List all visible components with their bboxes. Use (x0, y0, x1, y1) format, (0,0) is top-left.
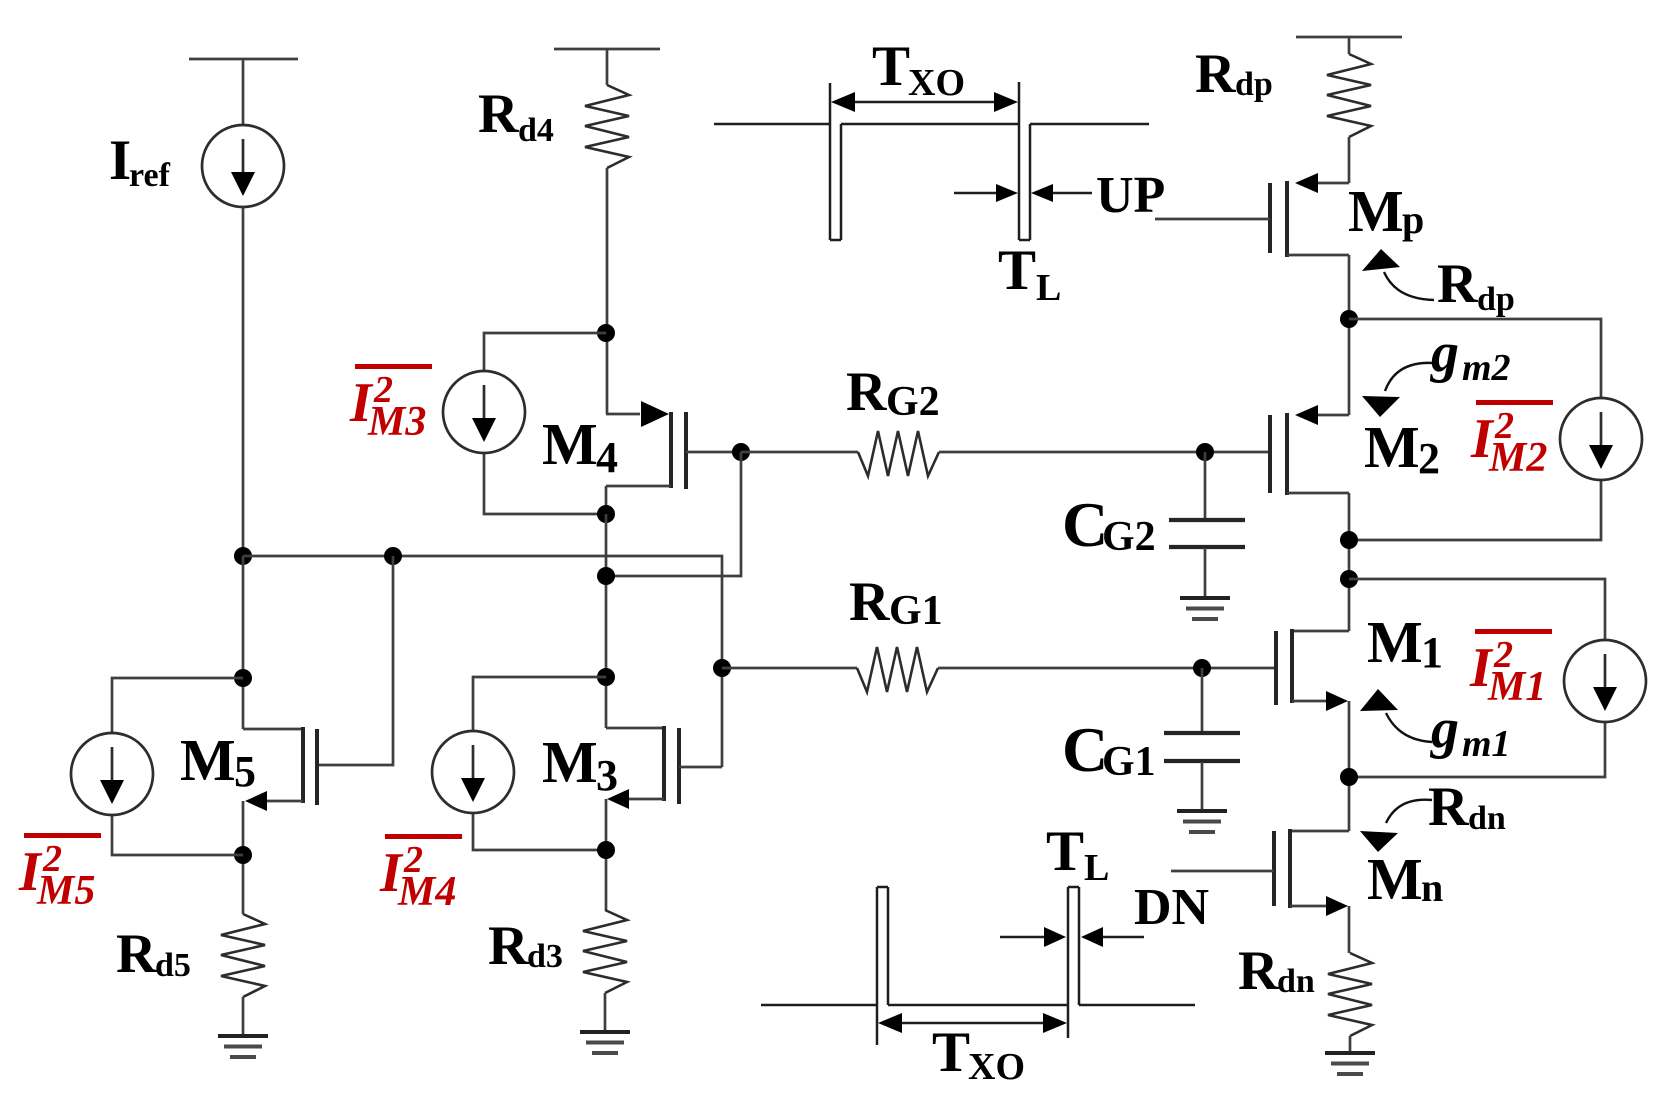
node I (M3 drain / IM4 loop top) (597, 668, 615, 686)
label IM1 noise (red) (1475, 629, 1552, 634)
wire Rd4 to M4 drain (606, 168, 609, 414)
wire M3 source to Rd3 (605, 799, 608, 910)
UP waveform baseline middle (841, 123, 1018, 126)
svg-text:1: 1 (1421, 628, 1443, 677)
svg-text:d3: d3 (527, 938, 563, 975)
svg-text:m1: m1 (1462, 723, 1511, 765)
svg-text:R: R (846, 361, 887, 423)
resistor Rd5 (221, 914, 265, 997)
svg-text:T: T (872, 35, 910, 98)
ground (Rd3) (580, 1030, 630, 1034)
power rail VDD (middle) (554, 48, 660, 51)
dimension TXO (bottom) arrow (884, 1022, 1062, 1024)
ground (CG2) (1180, 596, 1230, 600)
svg-text:M1: M1 (1487, 664, 1546, 710)
noise source IM4 loop wires (473, 677, 606, 731)
DN waveform baseline right (1079, 1004, 1195, 1007)
wire RG2 right segment (939, 451, 1270, 454)
svg-text:3: 3 (596, 751, 618, 800)
svg-text:R: R (849, 571, 890, 633)
svg-text:R: R (478, 83, 519, 145)
wire RG1 left segment (722, 667, 857, 670)
wire RG1 right segment (938, 667, 1276, 670)
svg-text:5: 5 (234, 747, 256, 796)
UP waveform pulse 1 (829, 83, 832, 240)
svg-text:R: R (1437, 253, 1478, 315)
wire Rd3 to ground (604, 993, 607, 1030)
noise current source IM2 (1560, 398, 1642, 480)
node L (RG2 / CG2) (1196, 443, 1214, 461)
svg-text:M: M (542, 411, 598, 477)
capacitor CG2 (1204, 452, 1207, 519)
svg-text:p: p (1402, 197, 1424, 242)
node Q (M1 source / IM1 loop bottom) (1340, 768, 1358, 786)
DN waveform pulse 1 (876, 887, 879, 1045)
svg-text:L: L (1036, 267, 1061, 309)
svg-text:I: I (109, 129, 131, 192)
noise source IM2 loop wires (1349, 319, 1601, 398)
svg-text:G1: G1 (889, 588, 943, 634)
node A (Iref / M5 drain / mirror rail) (234, 547, 252, 565)
svg-text:g: g (1429, 322, 1459, 384)
label IM5 noise (red) (24, 833, 101, 838)
svg-text:M: M (1364, 414, 1420, 480)
UP waveform baseline left (714, 123, 829, 126)
noise current source IM4 (432, 731, 514, 813)
svg-text:R: R (1195, 43, 1236, 105)
resistor Rdp (1327, 54, 1371, 137)
svg-text:M: M (1348, 178, 1404, 244)
node E (M4 drain / IM3 loop top) (597, 324, 615, 342)
svg-text:M3: M3 (367, 399, 426, 445)
node J (RG1 tap) (713, 659, 731, 677)
transistor M1 (1292, 630, 1349, 633)
svg-text:R: R (116, 923, 157, 985)
ground (CG1) (1177, 809, 1227, 813)
svg-text:R: R (488, 915, 529, 977)
svg-text:R: R (1238, 940, 1279, 1002)
svg-text:M: M (1367, 609, 1423, 675)
transistor M4 (606, 413, 640, 416)
wire M5 drain vertical (242, 556, 245, 729)
current source Iref (202, 125, 284, 207)
svg-text:G1: G1 (1102, 739, 1156, 785)
dimension TL arrows (top) (954, 192, 1000, 194)
svg-text:G2: G2 (1102, 514, 1156, 560)
svg-text:M: M (542, 729, 598, 795)
DN waveform baseline left (761, 1004, 876, 1007)
resistor Rd4 (585, 85, 629, 168)
node O (M2 drain / IM2 loop bottom) (1340, 531, 1358, 549)
svg-text:M: M (1367, 846, 1423, 912)
svg-text:dn: dn (1277, 963, 1315, 1000)
annotation gm2 arrow (1385, 363, 1433, 391)
node N (Mp drain / M2 source / IM2 loop) (1340, 310, 1358, 328)
transistor M3 (606, 727, 664, 730)
transistor Mn (1290, 830, 1349, 833)
wire M4 gate connection (686, 451, 741, 454)
UP waveform baseline right (1030, 123, 1149, 126)
svg-text:4: 4 (596, 433, 618, 482)
svg-text:DN: DN (1134, 879, 1209, 936)
node G (M4 gate / RG2) (732, 443, 750, 461)
resistor RG1 (857, 647, 938, 692)
svg-text:XO: XO (908, 62, 965, 104)
noise current source IM5 (71, 733, 153, 815)
power rail VDD (left) (189, 58, 298, 61)
UP waveform pulse 2 (1018, 82, 1021, 240)
resistor Rd3 (583, 910, 627, 993)
wire RG2 left segment (741, 451, 858, 454)
power rail VDD (right) (1296, 36, 1402, 39)
svg-text:L: L (1084, 847, 1109, 889)
node D (M5 source / IM5 loop bottom) (234, 846, 252, 864)
resistor RG2 (858, 431, 939, 476)
ground (Rdn) (1325, 1051, 1375, 1055)
wire Rdp to Mp source (1348, 137, 1351, 183)
resistor Rdn (1328, 953, 1372, 1036)
svg-text:T: T (1046, 820, 1084, 883)
noise source IM5 loop wires (112, 678, 243, 733)
wire mirror rail (243, 556, 722, 668)
noise current source IM3 (443, 371, 525, 453)
wire M4 source down to M3 drain (605, 514, 608, 728)
wire M3 gate from mirror rail (721, 668, 724, 767)
wire Rd5 to ground (242, 997, 245, 1034)
wire M5 source to Rd5 (242, 801, 245, 914)
svg-text:g: g (1429, 698, 1459, 760)
node K (M3 source / IM4 loop bottom) (597, 841, 615, 859)
svg-text:m2: m2 (1462, 347, 1511, 389)
wire Rdn to ground (1349, 1036, 1352, 1052)
node H (diode tie on middle vertical) (597, 567, 615, 585)
svg-text:T: T (998, 239, 1036, 302)
svg-text:R: R (1428, 776, 1469, 838)
svg-text:dp: dp (1235, 66, 1273, 103)
noise current source IM1 (1564, 640, 1646, 722)
annotation gm1 arrow (1386, 713, 1432, 742)
wire M5 gate drop (319, 556, 393, 765)
svg-text:T: T (932, 1021, 970, 1084)
node M (RG1 / CG1) (1193, 659, 1211, 677)
DN waveform pulse 2 (1067, 887, 1070, 1038)
node C (M5 drain / IM5 loop top) (234, 669, 252, 687)
svg-text:ref: ref (129, 157, 171, 194)
dimension TXO (top) arrow (838, 101, 1012, 103)
svg-text:dp: dp (1477, 281, 1515, 318)
svg-text:n: n (1421, 865, 1443, 910)
label IM3 noise (red) (355, 364, 432, 369)
noise source IM1 loop wires (1349, 579, 1605, 640)
svg-text:d4: d4 (518, 112, 554, 149)
svg-text:dn: dn (1468, 800, 1506, 837)
wire M4 gate diode return (606, 452, 741, 576)
svg-text:M5: M5 (36, 868, 95, 914)
transistor M2 (1318, 414, 1349, 417)
DN waveform baseline middle (888, 1004, 1068, 1007)
wire Iref to mirror node (242, 207, 245, 556)
annotation Rdp arrow (1384, 272, 1434, 300)
svg-text:UP: UP (1096, 167, 1165, 224)
svg-text:XO: XO (968, 1046, 1025, 1088)
transistor M5 (243, 728, 303, 731)
node B (M5 gate tap on mirror rail) (384, 547, 402, 565)
annotation Rdn arrow (1386, 800, 1432, 823)
node P (M1 drain / IM1 loop top) (1340, 570, 1358, 588)
transistor Mp (1318, 182, 1349, 185)
svg-text:G2: G2 (886, 379, 940, 425)
label IM2 noise (red) (1476, 400, 1553, 405)
ground (Rd5) (218, 1034, 268, 1038)
noise source IM3 loop wires (484, 333, 606, 371)
capacitor CG1 (1201, 668, 1204, 732)
svg-text:M2: M2 (1488, 435, 1547, 481)
svg-text:d5: d5 (155, 947, 191, 984)
dimension TL arrows (bottom) (1000, 936, 1046, 938)
svg-text:2: 2 (1418, 434, 1440, 483)
label IM4 noise (red) (385, 834, 462, 839)
svg-text:M4: M4 (397, 869, 456, 915)
node F (M4 source / IM3 loop bottom) (597, 505, 615, 523)
svg-text:M: M (180, 727, 236, 793)
